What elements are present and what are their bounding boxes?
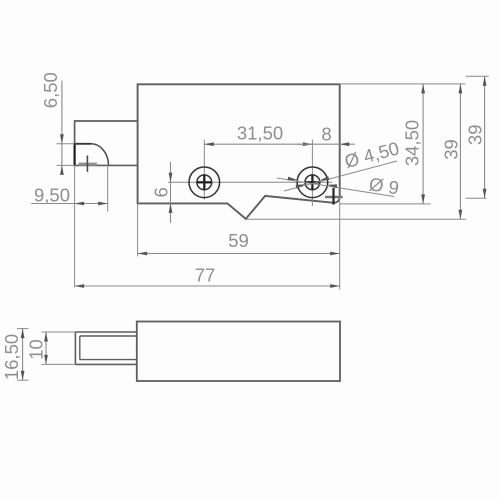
dim 39 (inner) line bbox=[459, 84, 461, 219]
dim 39 (inner) top arrow bbox=[459, 84, 463, 94]
dim 10 top arrow bbox=[44, 332, 48, 342]
dim 16,50 top tick bbox=[17, 328, 29, 330]
hole H2 center mark horizontal bbox=[305, 181, 320, 183]
svg-text:34,50: 34,50 bbox=[401, 120, 422, 166]
dim 6,50 line bbox=[61, 81, 63, 175]
dim 77 right arrow bbox=[330, 284, 340, 288]
ext line body left edge down bbox=[137, 203, 139, 256]
hole H1 center mark vertical bbox=[203, 175, 205, 190]
ext line bottom edge right bbox=[340, 203, 431, 205]
side view: bolt inner left bbox=[79, 336, 81, 360]
holes horizontal centerline bbox=[168, 181, 332, 183]
dim 6,50 bottom arrow bbox=[60, 165, 64, 175]
dim 39 (outer) bottom arrow bbox=[483, 189, 487, 199]
ext line bolt bottom left side view bbox=[42, 363, 76, 365]
svg-text:39: 39 bbox=[441, 139, 462, 160]
hole H1 inner circle (Ø4,50) bbox=[197, 175, 212, 190]
corner radius center mark horizontal bbox=[325, 196, 343, 198]
dim 31,50 left arrow bbox=[204, 142, 214, 146]
dim 39 (outer) line bbox=[484, 76, 486, 198]
dim 8 line bbox=[297, 143, 355, 145]
svg-text:31,50: 31,50 bbox=[237, 122, 283, 143]
ext line step left bbox=[57, 143, 75, 145]
bolt fillet center mark bar bbox=[79, 163, 97, 166]
dim 9,50 right arrow bbox=[98, 202, 108, 206]
svg-text:9,50: 9,50 bbox=[34, 184, 70, 205]
hole H2 inner circle (Ø4,50) bbox=[305, 175, 320, 190]
dim 9,50 left arrow bbox=[75, 202, 85, 206]
dim 34,50 line bbox=[422, 84, 424, 204]
ext line body right edge down bbox=[339, 197, 341, 290]
dim 10 bottom arrow bbox=[44, 355, 48, 365]
bolt left edge upper bbox=[74, 120, 76, 144]
bolt bottom edge bbox=[75, 164, 138, 166]
dim 59 left arrow bbox=[138, 252, 148, 256]
bolt top edge bbox=[75, 120, 138, 122]
leader Ø9 line bbox=[277, 178, 394, 197]
dim 39 (outer) top arrow bbox=[483, 76, 487, 86]
svg-text:10: 10 bbox=[25, 339, 46, 360]
side view: body rectangle bbox=[137, 322, 340, 382]
leader Ø4,50 arrow left bbox=[296, 184, 306, 188]
svg-text:16,50: 16,50 bbox=[1, 334, 22, 380]
leader Ø4,50 line bbox=[284, 161, 397, 191]
side view: bolt outer top bbox=[75, 331, 136, 333]
dim 59 line bbox=[138, 253, 340, 255]
bolt fillet center mark vertical bbox=[86, 156, 88, 172]
svg-text:39: 39 bbox=[464, 125, 485, 146]
ext line bolt bottom left bbox=[57, 164, 75, 166]
hole H2 vertical centerline bbox=[311, 140, 313, 207]
dim 8 right arrow bbox=[340, 142, 350, 146]
dim 10 line bbox=[45, 332, 47, 364]
dim 77 left arrow bbox=[75, 284, 85, 288]
dim 77 line bbox=[75, 285, 340, 287]
bolt step line bbox=[74, 143, 91, 145]
dim 16,50 line bbox=[22, 329, 24, 381]
dim 34,50 bottom arrow bbox=[421, 194, 425, 204]
leader Ø9 arrow right bbox=[328, 184, 338, 188]
dim 6 bottom arrow bbox=[169, 203, 173, 213]
ext line top edge right bbox=[340, 83, 466, 85]
dim 16,50 top arrow bbox=[21, 329, 25, 339]
ext line bolt left edge down bbox=[74, 165, 76, 287]
hole H1 center mark horizontal bbox=[197, 181, 212, 183]
dim 9,50 line bbox=[31, 203, 108, 205]
hole H1 vertical centerline bbox=[203, 140, 205, 200]
dim 16,50 bottom tick bbox=[17, 379, 29, 381]
ext line V-vertex right bbox=[246, 218, 466, 220]
hole H1 outer circle (Ø9) bbox=[189, 167, 220, 198]
dim 31,50 / 8 shared arrow bbox=[303, 142, 313, 146]
dim 6 line bbox=[170, 162, 172, 223]
svg-text:6: 6 bbox=[150, 187, 171, 197]
dim 39 (outer) bottom tick bbox=[466, 197, 487, 199]
bolt nose fillet arc bbox=[91, 144, 109, 166]
svg-text:6,50: 6,50 bbox=[40, 72, 61, 108]
svg-text:77: 77 bbox=[195, 265, 216, 286]
side view: bolt inner top bbox=[80, 335, 137, 337]
hole H2 center mark vertical bbox=[311, 175, 313, 190]
dim 39 (inner) bottom arrow bbox=[459, 210, 463, 220]
ext line x=107.7 bbox=[107, 165, 109, 211]
side view: bolt outer left bbox=[74, 332, 76, 364]
bolt left edge lower (dark) bbox=[73, 143, 75, 166]
dim 6 top arrow bbox=[169, 173, 173, 183]
dim 34,50 top arrow bbox=[421, 84, 425, 94]
leader Ø4,50 arrow right bbox=[320, 176, 330, 180]
side view: bolt outer bottom bbox=[75, 363, 136, 365]
hole H2 outer circle (Ø9) bbox=[297, 167, 328, 198]
svg-text:59: 59 bbox=[228, 230, 249, 251]
dim 6,50 top arrow bbox=[60, 134, 64, 144]
ext line bolt top left bbox=[42, 331, 76, 333]
svg-text:8: 8 bbox=[321, 124, 331, 145]
dim 59 right arrow bbox=[330, 252, 340, 256]
leader Ø9 arrow left bbox=[288, 177, 298, 181]
side view: bolt inner bottom bbox=[80, 359, 137, 361]
dim 16,50 bottom arrow bbox=[21, 371, 25, 381]
dim 39 (outer) top tick bbox=[466, 75, 489, 77]
corner radius center mark vertical bbox=[332, 188, 334, 205]
top view: latch body outline with V-notch bbox=[138, 84, 340, 219]
dim 31,50 line bbox=[204, 143, 312, 145]
